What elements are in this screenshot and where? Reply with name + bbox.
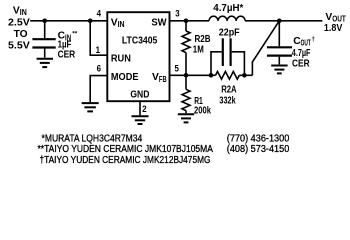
svg-text:332k: 332k xyxy=(219,96,235,107)
svg-text:*MURATA LQH3C4R7M34: *MURATA LQH3C4R7M34 xyxy=(42,134,143,145)
svg-text:CER: CER xyxy=(292,58,310,69)
svg-text:GND: GND xyxy=(130,89,149,100)
svg-text:2: 2 xyxy=(142,104,146,114)
svg-text:1M: 1M xyxy=(193,44,204,55)
svg-text:VIN: VIN xyxy=(111,17,125,29)
svg-text:2.5V: 2.5V xyxy=(8,17,30,28)
svg-text:VIN: VIN xyxy=(13,6,27,18)
svg-text:RUN: RUN xyxy=(111,53,131,64)
svg-text:(770) 436-1300: (770) 436-1300 xyxy=(227,134,290,145)
svg-text:COUT†: COUT† xyxy=(293,36,315,48)
svg-text:200k: 200k xyxy=(194,106,211,117)
svg-text:(408) 573-4150: (408) 573-4150 xyxy=(227,144,290,155)
svg-text:MODE: MODE xyxy=(111,72,139,83)
svg-text:VFB: VFB xyxy=(152,72,167,84)
svg-text:**TAIYO YUDEN CERAMIC JMK107BJ: **TAIYO YUDEN CERAMIC JMK107BJ105MA xyxy=(38,144,214,155)
svg-text:LTC3405: LTC3405 xyxy=(122,35,158,46)
svg-text:4.7µH*: 4.7µH* xyxy=(213,3,243,14)
svg-text:SW: SW xyxy=(151,17,166,28)
svg-text:4: 4 xyxy=(97,9,102,19)
svg-text:5: 5 xyxy=(175,64,179,74)
svg-text:5.5V: 5.5V xyxy=(8,41,30,52)
svg-text:TO: TO xyxy=(14,29,28,40)
svg-text:3: 3 xyxy=(175,9,179,19)
svg-text:1: 1 xyxy=(96,45,100,55)
svg-text:4.7µF: 4.7µF xyxy=(292,48,311,59)
svg-text:6: 6 xyxy=(97,64,101,74)
svg-text:R2A: R2A xyxy=(221,84,237,95)
svg-text:†TAIYO YUDEN CERAMIC JMK212BJ4: †TAIYO YUDEN CERAMIC JMK212BJ475MG xyxy=(40,155,211,166)
svg-text:VOUT: VOUT xyxy=(325,12,346,24)
svg-text:22pF: 22pF xyxy=(219,27,240,38)
svg-text:CER: CER xyxy=(58,50,76,61)
svg-text:1.8V: 1.8V xyxy=(324,23,343,34)
